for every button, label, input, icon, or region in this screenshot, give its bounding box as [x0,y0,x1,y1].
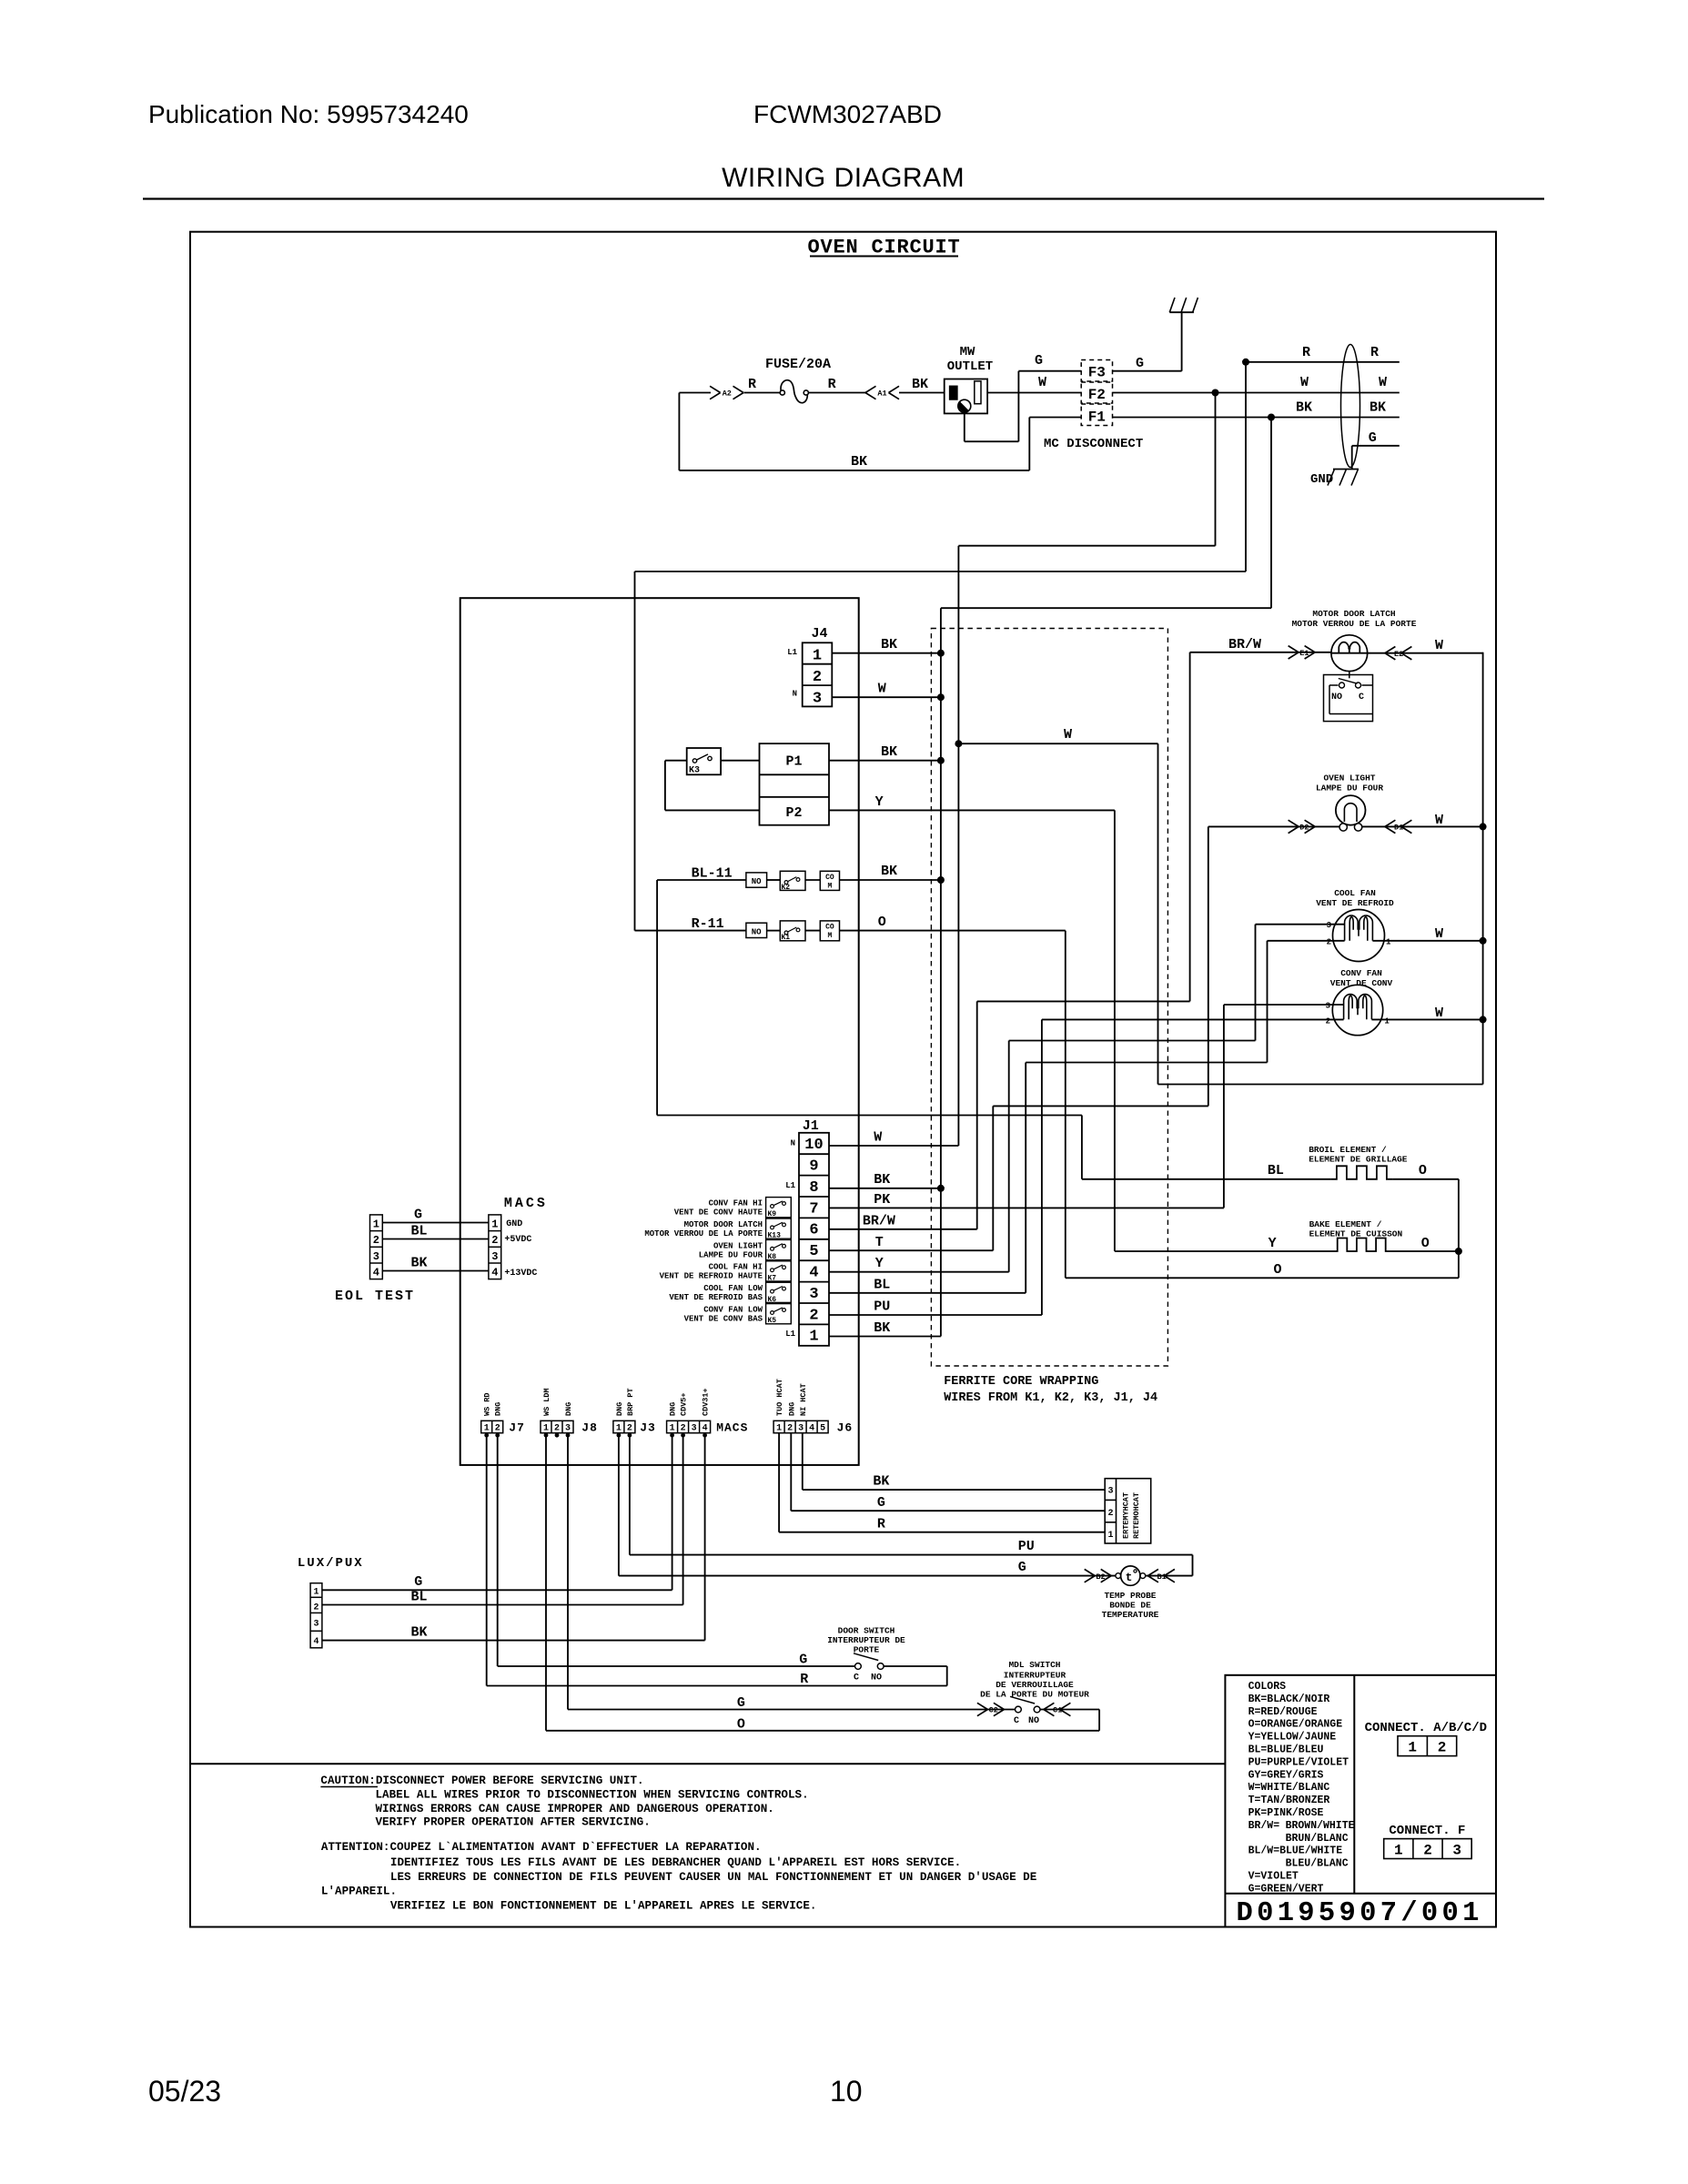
wire R-11 to NO [635,930,746,932]
svg-text:DE VERROUILLAGE: DE VERROUILLAGE [996,1680,1074,1690]
conv fan motor [1332,985,1382,1035]
label W (distribution) [1064,727,1072,743]
node W junction [1212,389,1219,397]
label conv fan pins [1326,1002,1390,1026]
contact COM (K2) [820,871,839,890]
wire conv fan 1 W [1371,1018,1482,1020]
svg-text:TUO HCAT: TUO HCAT [775,1379,784,1416]
svg-text:J7: J7 [509,1421,525,1435]
svg-text:K9: K9 [768,1210,777,1218]
MW OUTLET symbol [945,345,994,413]
svg-text:1: 1 [1408,1740,1417,1756]
arrow E2 [1385,647,1412,660]
title OVEN CIRCUIT [807,237,960,259]
connector LUX/PUX [310,1583,322,1648]
wire BK bus drop [941,418,1271,1337]
wire K3 left to P2 [665,761,760,811]
label BK right [1370,400,1386,416]
label MDL SWITCH [980,1660,1089,1700]
pin label GND (rotated) [494,1402,503,1416]
svg-text:Y: Y [1269,1236,1277,1251]
svg-text:2: 2 [813,669,822,686]
svg-text:BK: BK [912,377,928,392]
node cool fan W junction [1480,937,1487,945]
arrow D2 [1289,820,1316,833]
label MOTOR DOOR LATCH [644,1220,763,1239]
svg-text:WS LDM: WS LDM [542,1388,551,1416]
svg-text:VENT DE CONV BAS: VENT DE CONV BAS [684,1315,763,1324]
svg-text:C: C [854,1673,859,1683]
svg-text:COOL FAN: COOL FAN [1334,888,1376,898]
pin terminal dot [555,1433,560,1438]
svg-text:R: R [1370,345,1379,360]
wire BK (F1 to right) [1113,417,1400,419]
svg-text:6: 6 [809,1222,818,1239]
label G (door sw) [799,1653,807,1668]
label Y (P2) [875,794,884,810]
svg-text:BK: BK [874,1320,890,1336]
svg-text:BK: BK [411,1256,428,1271]
label Y (J1-4) [875,1256,884,1271]
svg-text:MOTOR VERROU DE LA PORTE: MOTOR VERROU DE LA PORTE [1292,619,1417,629]
svg-text:4: 4 [373,1267,379,1279]
label G (EOL) [414,1208,422,1223]
node J4-1 BK junction [937,650,945,657]
svg-text:CO: CO [825,874,834,882]
svg-text:J8: J8 [581,1421,598,1435]
svg-text:2: 2 [1423,1842,1432,1858]
main diagram border box [190,232,1496,1927]
label CONV FAN [1330,968,1393,988]
connector MACS (bottom) [667,1421,749,1434]
wire EOL-MACS G [382,1222,489,1224]
pin terminal dot [628,1433,632,1438]
broil element [1330,1166,1392,1179]
label O (bottom) [1274,1262,1282,1278]
svg-text:GND: GND [506,1219,522,1229]
svg-text:CONV FAN HI: CONV FAN HI [709,1199,763,1208]
label BL (LUX) [411,1590,428,1605]
connector J8 [541,1421,598,1434]
wire J1-2 PU [829,1019,1042,1315]
wire cool fan 1 W [1372,940,1482,942]
wire BL to broil [657,1116,1330,1179]
node BL-11 BK junction [937,876,945,884]
svg-text:R: R [800,1672,808,1687]
svg-text:M: M [827,932,832,940]
wire bake O [1391,1250,1459,1252]
arrow C2 [977,1703,1005,1715]
svg-text:MOTOR VERROU DE LA PORTE: MOTOR VERROU DE LA PORTE [644,1229,763,1239]
label BK (P1) [881,744,897,760]
legend color list [1248,1681,1355,1895]
label BK (J1-8) [874,1172,890,1188]
pin label GND (rotated) [615,1402,624,1416]
fuse FUSE/20A [765,357,831,403]
label R right [1370,345,1379,360]
label W (conv fan) [1435,1006,1443,1021]
svg-text:D0195907/001: D0195907/001 [1237,1898,1483,1929]
svg-text:W: W [1435,813,1443,828]
svg-text:1: 1 [491,1218,498,1230]
arrow E1 [1289,646,1316,659]
label BK (J4-1) [881,637,897,652]
svg-text:P2: P2 [785,805,802,821]
svg-text:CDV5+: CDV5+ [680,1392,689,1416]
svg-text:PU: PU [874,1299,890,1315]
svg-text:VERIFIEZ LE BON FONCTIONNEMENT: VERIFIEZ LE BON FONCTIONNEMENT DE L'APPA… [390,1900,817,1913]
svg-text:INTERRUPTEUR: INTERRUPTEUR [1004,1671,1066,1681]
svg-text:BR/W: BR/W [863,1214,895,1229]
svg-text:J4: J4 [812,626,828,642]
svg-text:1: 1 [1394,1842,1403,1858]
wire J3-1 G [619,1433,1116,1576]
svg-text:PK=PINK/ROSE: PK=PINK/ROSE [1248,1807,1324,1819]
svg-text:4: 4 [313,1637,318,1647]
arrow A1 [865,386,899,399]
svg-text:CDV31+: CDV31+ [702,1388,711,1416]
label PU (J1-2) [874,1299,890,1315]
wire PU staircase [1042,1018,1344,1020]
svg-text:BL-11: BL-11 [692,866,733,882]
pin label MDL SW (rotated) [542,1388,551,1416]
wire LUX-2 BL to MACS-2 [322,1433,683,1605]
svg-text:2: 2 [1107,1509,1113,1519]
svg-text:MOTOR DOOR LATCH: MOTOR DOOR LATCH [684,1220,763,1229]
label cool fan pins [1327,921,1391,947]
svg-text:VERIFY PROPER OPERATION AFTER: VERIFY PROPER OPERATION AFTER SERVICING. [376,1816,651,1829]
wire W (F2 to right) [1113,392,1400,394]
label W (outlet-F2) [1038,375,1046,390]
svg-text:1: 1 [1384,1017,1390,1026]
svg-text:3: 3 [813,690,822,707]
svg-text:G: G [1136,356,1144,371]
caution text block [320,1774,808,1829]
svg-text:2: 2 [1438,1740,1447,1756]
label D0195907/001 [1237,1898,1483,1929]
label W (J1-10) [874,1130,882,1146]
svg-text:OUTLET: OUTLET [947,359,993,374]
label COOL FAN [1316,888,1394,908]
svg-text:7: 7 [809,1200,818,1218]
label BK (A1) [912,377,928,392]
svg-text:BR/W: BR/W [1228,637,1261,652]
svg-text:NO: NO [752,927,762,936]
svg-text:J3: J3 [640,1421,656,1435]
svg-text:L1: L1 [785,1330,795,1339]
wire J8-3 G to MDL [568,1433,1016,1710]
label BL (EOL) [411,1224,428,1239]
label BK (tach) [873,1474,889,1490]
latch switch box [1324,672,1373,722]
relay contact K5 (J1) [766,1304,792,1326]
ground symbol top (MC disconnect earth) [1169,298,1198,312]
svg-text:MC DISCONNECT: MC DISCONNECT [1044,437,1143,451]
svg-text:COOL FAN HI: COOL FAN HI [709,1263,763,1272]
svg-text:3: 3 [1452,1842,1461,1858]
label G (probe) [1018,1560,1026,1575]
svg-text:LES ERREURS DE CONNECTION DE F: LES ERREURS DE CONNECTION DE FILS PEUVEN… [390,1871,1037,1884]
svg-text:R: R [877,1517,885,1532]
wire BL staircase [1026,941,1267,1063]
ferrite core wrapping box [931,629,1167,1367]
svg-text:K6: K6 [768,1296,777,1304]
label R-11 [692,916,724,932]
svg-text:C: C [1014,1716,1019,1726]
arrow D1 [1385,820,1412,833]
connector J3 [613,1421,656,1434]
wire J1-3 BL [829,1063,1026,1293]
svg-text:W: W [1300,375,1309,390]
svg-text:3: 3 [313,1620,318,1630]
svg-text:3: 3 [1327,921,1331,930]
svg-text:IDENTIFIEZ TOUS LES FILS AVANT: IDENTIFIEZ TOUS LES FILS AVANT DE LES DE… [390,1856,961,1869]
wire broil O [1392,1179,1459,1279]
svg-text:G: G [1018,1560,1026,1575]
label CONNECT. F [1389,1824,1465,1838]
label BK (EOL) [411,1256,428,1271]
label BK mid [1296,400,1312,416]
wire K3 to P1 [721,760,759,762]
contact NO (K1) [746,923,767,937]
svg-text:INTERRUPTEUR DE: INTERRUPTEUR DE [827,1635,905,1645]
pin label GND (rotated) [669,1402,678,1416]
label O (bake) [1421,1236,1430,1251]
svg-text:TEMPERATURE: TEMPERATURE [1102,1610,1159,1620]
wire PK staircase [1224,1005,1344,1208]
attention text block [321,1841,1037,1913]
svg-text:NO: NO [752,877,762,886]
door switch [854,1653,884,1683]
node BK junction [1268,414,1275,421]
svg-text:K7: K7 [768,1274,777,1282]
svg-text:3: 3 [809,1286,818,1303]
svg-text:BL/W=BLUE/WHITE: BL/W=BLUE/WHITE [1248,1845,1343,1857]
svg-text:WS RD: WS RD [483,1392,492,1416]
wire outlet to F2 [987,392,1081,394]
node W takeoff [955,740,962,747]
svg-text:3: 3 [1107,1487,1113,1497]
svg-text:G: G [414,1574,422,1590]
pin terminal dot [484,1433,489,1438]
svg-text:BK: BK [874,1172,890,1188]
svg-text:DNG: DNG [564,1402,573,1416]
label W (cool fan) [1435,926,1443,942]
pin terminal dot [617,1433,622,1438]
svg-text:DOOR SWITCH: DOOR SWITCH [838,1626,895,1636]
svg-text:DE LA PORTE DU MOTEUR: DE LA PORTE DU MOTEUR [980,1690,1089,1700]
svg-text:CAUTION:DISCONNECT POWER BEFOR: CAUTION:DISCONNECT POWER BEFORE SERVICIN… [320,1774,643,1787]
svg-text:G: G [1369,430,1377,446]
svg-text:2: 2 [809,1307,818,1324]
wire K2 COM to BK bus [840,879,941,881]
svg-text:T=TAN/BRONZER: T=TAN/BRONZER [1248,1795,1330,1806]
svg-text:BL: BL [874,1278,890,1293]
svg-text:3: 3 [491,1250,498,1263]
svg-text:R: R [748,377,756,392]
pin label TACH OUT (rotated) [775,1379,784,1416]
svg-text:BK: BK [1370,400,1386,416]
tachometer [1105,1479,1151,1543]
relay contact K9 (J1) [766,1198,792,1219]
svg-text:W: W [1379,375,1387,390]
svg-text:K2: K2 [782,884,791,892]
svg-text:FCWM3027ABD: FCWM3027ABD [753,100,942,128]
node bake O junction [1455,1248,1462,1255]
svg-text:W: W [874,1130,882,1146]
label BK (return) [851,454,867,470]
svg-text:3: 3 [565,1424,571,1434]
legend box [1225,1675,1496,1927]
svg-text:W: W [1064,727,1072,743]
wire T to D2 [1208,825,1339,827]
label BR/W (latch) [1228,637,1261,652]
wire BR/W staircase [977,652,1190,1002]
wire J3-2 PU [630,1433,1193,1576]
wire G from F3 right [1113,370,1182,372]
svg-text:R-11: R-11 [692,916,724,932]
svg-text:R: R [1302,345,1310,360]
label LUX/PUX [298,1556,364,1571]
label BK (LUX) [411,1625,428,1641]
pin label GND (rotated) [787,1402,796,1416]
footer date 05/23 [148,2075,221,2108]
svg-text:CONNECT. F: CONNECT. F [1389,1824,1465,1838]
svg-text:5: 5 [820,1424,825,1434]
svg-text:G: G [877,1495,885,1511]
svg-text:Y: Y [875,1256,884,1271]
label OVEN LIGHT [1316,773,1383,794]
label CONNECT. A/B/C/D [1365,1721,1487,1735]
wire J1-1 BK [829,1336,941,1338]
pin terminal dot [702,1433,707,1438]
svg-text:LABEL ALL WIRES PRIOR TO DISCO: LABEL ALL WIRES PRIOR TO DISCONNECTION W… [376,1789,809,1802]
label BAKE ELEMENT [1309,1219,1403,1239]
svg-text:TEMP PROBE: TEMP PROBE [1104,1591,1156,1601]
svg-text:K5: K5 [768,1317,777,1325]
svg-text:FERRITE CORE WRAPPING: FERRITE CORE WRAPPING [944,1375,1098,1389]
svg-text:VENT DE REFROID: VENT DE REFROID [1316,898,1394,908]
wire Y staircase [1009,925,1256,1041]
oven light bulb [1336,795,1366,831]
wire A2 feed [679,392,711,394]
svg-text:F3: F3 [1088,365,1106,381]
svg-text:CONV FAN: CONV FAN [1340,968,1382,978]
relay K3 [687,748,721,776]
svg-text:BK: BK [881,637,897,652]
svg-text:G: G [737,1695,745,1711]
svg-text:BR/W=: BR/W= [1248,1820,1280,1832]
wire K1-COM [805,930,820,932]
svg-text:DNG: DNG [669,1402,678,1416]
wire J7-2 G to door switch [498,1433,855,1666]
wire BK-return rise to F1 [1028,418,1030,470]
label O (MDL) [737,1717,745,1733]
arrow A2 [710,386,743,399]
label R (tach) [877,1517,885,1532]
pin label DR SW (rotated) [483,1392,492,1416]
svg-text:L1: L1 [787,648,797,657]
label BR/W (J1-6) [863,1214,895,1229]
wire LUX-4 BK to MACS-4 [322,1433,705,1641]
wire P1 BK [829,760,941,762]
svg-text:1: 1 [1386,938,1391,947]
svg-text:NO: NO [1331,693,1342,703]
svg-text:2: 2 [1327,938,1331,947]
svg-text:MACS: MACS [504,1196,548,1211]
label PU [1018,1539,1035,1554]
wire door switch return R [487,1433,947,1686]
svg-text:1: 1 [313,1588,318,1598]
svg-text:MDL SWITCH: MDL SWITCH [1008,1660,1060,1670]
svg-text:4: 4 [491,1267,498,1279]
fuse box F3 [1081,360,1112,382]
svg-text:N: N [791,1139,795,1148]
wire J6-3 BK to tach [803,1433,1105,1490]
svg-text:+5VDC: +5VDC [504,1235,531,1245]
svg-text:VENT DE CONV: VENT DE CONV [1330,978,1393,988]
relay K1 [780,921,805,942]
wire J1-8 BK [829,1188,941,1189]
svg-text:W=WHITE/BLANC: W=WHITE/BLANC [1248,1782,1330,1794]
svg-text:BK: BK [881,864,897,879]
connector EOL TEST [370,1215,383,1279]
svg-text:1: 1 [484,1424,490,1434]
caution area divider [190,1763,1225,1764]
svg-text:EOL TEST: EOL TEST [335,1289,415,1304]
wire BL-11 left drop [656,880,658,1116]
svg-text:WIRES FROM K1, K2, K3, J1, J4: WIRES FROM K1, K2, K3, J1, J4 [944,1391,1157,1405]
node R junction [1242,359,1249,366]
svg-text:L1: L1 [785,1181,795,1190]
wire MDL return O [546,1433,1099,1731]
label TEMP PROBE [1102,1591,1159,1620]
svg-text:BL: BL [411,1590,428,1605]
svg-text:F1: F1 [1088,409,1106,426]
svg-text:R=RED/ROUGE: R=RED/ROUGE [1248,1706,1318,1718]
footer page 10 [830,2075,863,2108]
wire fuse to A1 [808,392,865,394]
svg-text:BLEU/BLANC: BLEU/BLANC [1286,1858,1349,1870]
connector J7 [481,1421,525,1434]
header rule [143,197,1544,199]
label MC DISCONNECT [1044,437,1143,451]
cool fan motor [1333,910,1385,962]
svg-text:2: 2 [495,1424,500,1434]
svg-text:W: W [878,682,886,697]
svg-text:BONDE DE: BONDE DE [1109,1601,1151,1611]
svg-text:NI HCAT: NI HCAT [799,1383,808,1416]
svg-text:OVEN LIGHT: OVEN LIGHT [713,1241,763,1250]
wire R (to right) [1246,361,1400,363]
label G (LUX) [414,1574,422,1590]
svg-text:BK=BLACK/NOIR: BK=BLACK/NOIR [1248,1694,1330,1705]
contact NO (K2) [746,873,767,887]
connector J6 [773,1421,853,1434]
svg-text:PU: PU [1018,1539,1035,1554]
wire G outlet ground path [965,371,1081,442]
svg-text:3: 3 [373,1250,379,1263]
svg-text:BROIL ELEMENT /: BROIL ELEMENT / [1309,1145,1387,1155]
pin label +13VDC (rotated) [702,1388,711,1416]
svg-text:G: G [414,1208,422,1223]
label R (door sw) [800,1672,808,1687]
svg-text:DNG: DNG [615,1402,624,1416]
label R mid [1302,345,1310,360]
svg-text:1: 1 [1107,1531,1113,1541]
wire D1 W [1361,825,1482,827]
svg-text:3: 3 [1326,1002,1330,1011]
